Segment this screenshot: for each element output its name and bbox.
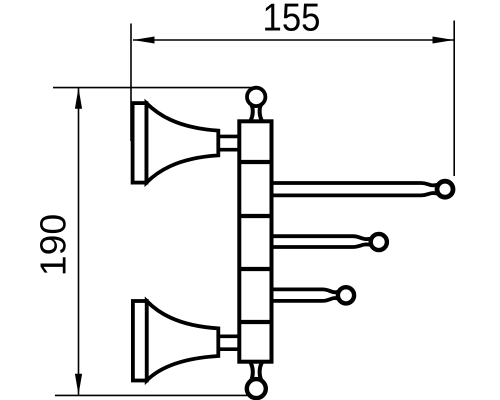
top wall-mount bell (146, 103, 218, 183)
dimension 155 left arrowhead (133, 37, 155, 44)
bottom wall-mount stub lower edge (218, 347, 242, 351)
arm 3 end ball (338, 287, 354, 303)
dimension 190 top extension line (53, 87, 252, 89)
central column body (239, 121, 271, 361)
dimension 155 line (133, 39, 454, 41)
bottom finial neck left edge (250, 362, 253, 382)
top finial ball (247, 88, 265, 106)
top finial neck left edge (250, 104, 253, 122)
dimension 155 right arrowhead (433, 37, 455, 44)
bottom finial ball (247, 379, 266, 398)
arm 1 top edge (270, 183, 440, 185)
column divider 4 (239, 320, 271, 324)
column divider 1 (239, 160, 271, 164)
arm 1 bottom edge (270, 193, 440, 195)
arm 1 end ball (437, 181, 453, 197)
top wall-mount stub lower edge (218, 148, 242, 152)
arm 3 bottom edge (270, 298, 340, 301)
dimension 190 bottom arrowhead (75, 374, 82, 395)
svg-text:155: 155 (263, 0, 321, 39)
bottom wall-mount plate (133, 301, 147, 381)
dimension 190 bottom extension line (55, 394, 251, 396)
column divider 3 (239, 267, 271, 271)
bottom finial neck right edge (260, 362, 263, 382)
column divider 2 (239, 214, 271, 218)
arm 3 top edge (270, 289, 340, 292)
bottom wall-mount stub upper edge (218, 334, 242, 338)
top finial neck right edge (260, 104, 263, 122)
arm 2 bottom edge (270, 244, 373, 247)
dimension 155 left extension line (130, 24, 132, 142)
arm 2 top edge (270, 236, 373, 239)
arm 2 end ball (371, 234, 387, 250)
svg-text:190: 190 (33, 214, 73, 276)
bottom wall-mount bell (147, 301, 219, 381)
top wall-mount stub upper edge (218, 135, 242, 139)
dimension 190 top arrowhead (75, 88, 82, 109)
dimension 155 right extension line (453, 21, 455, 177)
dimension 190 line (78, 88, 80, 395)
top wall-mount plate (133, 103, 147, 183)
